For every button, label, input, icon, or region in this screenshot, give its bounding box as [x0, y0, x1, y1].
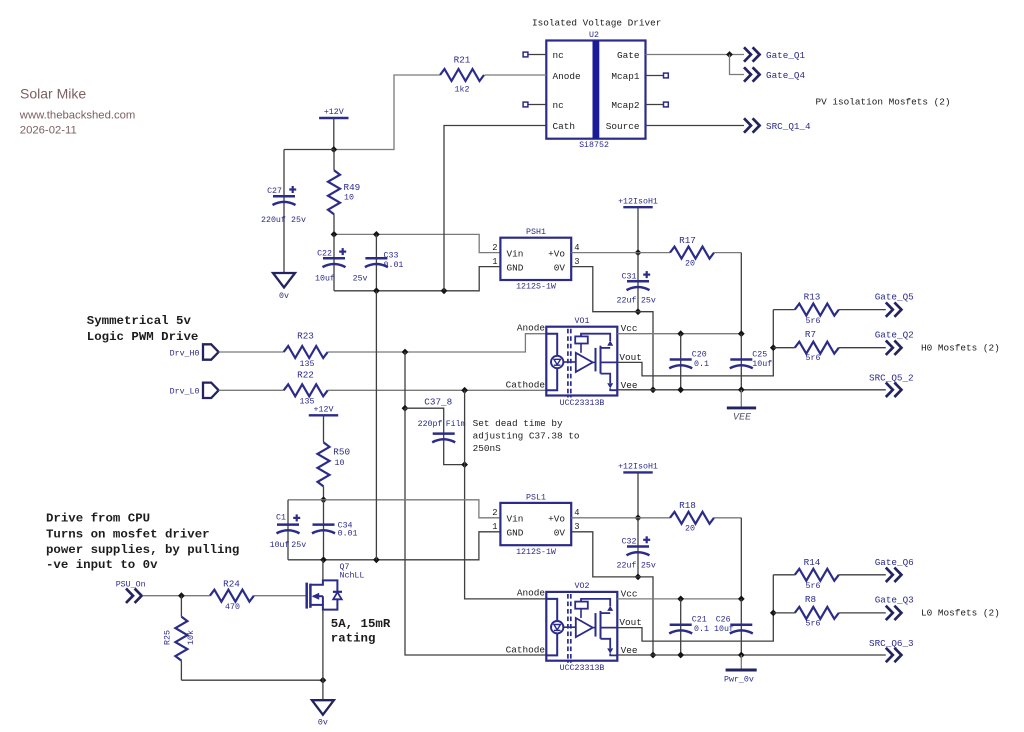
- opto-driver VO1 box: [546, 327, 617, 396]
- svg-text:Mcap1: Mcap1: [611, 71, 640, 82]
- IC U2 Si8752 box: [546, 41, 645, 139]
- resistor R50: [318, 442, 330, 486]
- svg-text:22uf: 22uf: [617, 296, 637, 306]
- wire R21 to U2 Anode: [485, 74, 547, 76]
- svg-text:C31: C31: [622, 273, 637, 282]
- svg-text:C25: C25: [752, 350, 767, 359]
- capacitor C32: [637, 518, 639, 577]
- svg-text:C21: C21: [692, 616, 707, 625]
- connector Drv_H0 input port: [203, 344, 219, 359]
- wire R25 bottom stem: [180, 661, 182, 681]
- power VEE: [740, 390, 742, 408]
- resistor R25: [175, 617, 187, 661]
- wire VO1 Vcc line: [617, 333, 741, 335]
- svg-text:0.1: 0.1: [694, 625, 709, 634]
- wire +12IsoH1 stem: [637, 472, 639, 517]
- wire Drv_L0 to R22: [219, 389, 284, 391]
- svg-text:L0 Mosfets (2): L0 Mosfets (2): [921, 608, 1000, 619]
- svg-text:R13: R13: [804, 292, 821, 303]
- connector SRC_Q5_2: [886, 383, 893, 397]
- wire R23 to VO1 Anode: [328, 334, 547, 352]
- svg-text:Vout: Vout: [619, 617, 642, 628]
- svg-text:Vin: Vin: [507, 514, 524, 525]
- wire +12V switched rail to PSL1 Vin pin 2: [288, 500, 500, 518]
- svg-text:Anode: Anode: [553, 71, 582, 82]
- svg-text:1212S-1W: 1212S-1W: [516, 548, 556, 557]
- capacitor C26: [740, 599, 742, 655]
- svg-text:Cath: Cath: [553, 121, 576, 132]
- wire PSL1 +Vo to R18: [571, 517, 670, 519]
- svg-text:Source: Source: [606, 121, 640, 132]
- wire R25 top stem: [180, 596, 182, 617]
- capacitor C37_8: [433, 432, 455, 435]
- junction C33 top: [373, 231, 380, 238]
- svg-text:C26: C26: [716, 616, 731, 625]
- wire PSH1 +Vo to R17: [571, 252, 670, 254]
- svg-text:-ve input to 0v: -ve input to 0v: [46, 558, 158, 572]
- opto-driver VO2 box: [546, 592, 617, 661]
- wire R17 to Vcc: [714, 252, 741, 254]
- wire Drv_H0 drop to C37: [404, 352, 406, 408]
- wire VO2 Vee rail: [617, 654, 886, 656]
- svg-text:1: 1: [492, 522, 497, 532]
- junction Vout branch: [770, 344, 777, 351]
- svg-text:PSH1: PSH1: [526, 228, 546, 237]
- capacitor C21: [680, 599, 682, 655]
- transistor Q7 body stub arrow: [313, 595, 323, 597]
- wire Q7 source to ground: [322, 610, 324, 701]
- wire U2 Source output: [646, 125, 745, 127]
- svg-text:R50: R50: [333, 446, 350, 457]
- junction R50 bottom: [320, 496, 327, 503]
- wire Drv_L0 net to VO2 Anode: [465, 465, 547, 599]
- svg-text:R25: R25: [164, 630, 173, 645]
- svg-text:C33: C33: [384, 251, 399, 260]
- junction Vee Cd2: [738, 386, 745, 393]
- wire PSU_On to R24: [143, 595, 210, 597]
- svg-text:20: 20: [685, 259, 695, 268]
- VO1 isolation barrier dashes: [567, 329, 569, 398]
- VO2 isolation barrier dashes: [567, 594, 569, 663]
- wire switched 0v rail to PSL1 GND pin 1: [288, 532, 500, 560]
- svg-text:220uf: 220uf: [261, 215, 286, 225]
- U2 Mcap1 stub: [646, 75, 664, 77]
- svg-text:0V: 0V: [554, 262, 566, 273]
- wire R25 to Q7 source: [181, 679, 323, 681]
- junction C37 top node: [402, 405, 409, 412]
- ground 0v (main): [312, 700, 334, 715]
- junction Vcc Cd1: [677, 596, 684, 603]
- svg-text:GND: GND: [507, 262, 524, 273]
- wire +12IsoH1 stem: [637, 207, 639, 252]
- module PSH1 DC-DC box: [500, 238, 571, 280]
- svg-text:SRC_Q1_4: SRC_Q1_4: [766, 121, 811, 132]
- wire R49 top stem: [333, 150, 335, 171]
- resistor R14: [795, 569, 839, 581]
- wire +12V rail to PSH1 Vin pin 2: [334, 234, 500, 252]
- junction R25 top: [178, 592, 185, 599]
- connector Gate_Q3: [886, 606, 893, 620]
- svg-text:Drv_L0: Drv_L0: [170, 388, 200, 397]
- svg-text:C1: C1: [276, 514, 286, 523]
- svg-text:Gate_Q2: Gate_Q2: [875, 330, 914, 341]
- svg-text:R14: R14: [804, 557, 821, 568]
- junction C33 bottom: [373, 287, 380, 294]
- svg-text:4: 4: [574, 243, 579, 253]
- connector Gate_Q1: [744, 47, 751, 61]
- junction Drv_L0 node: [461, 387, 468, 394]
- svg-text:25v: 25v: [641, 562, 656, 571]
- svg-text:+Vo: +Vo: [548, 514, 565, 525]
- svg-text:0v: 0v: [279, 292, 289, 301]
- svg-text:3: 3: [574, 522, 579, 532]
- wire PSH GND to PSL GND link: [375, 291, 377, 560]
- capacitor C25: [740, 334, 742, 390]
- svg-text:R8: R8: [805, 594, 816, 605]
- wire VO2 Vout to gate resistors: [617, 575, 773, 641]
- svg-text:C37_8: C37_8: [424, 396, 452, 407]
- junction +12V node: [330, 146, 337, 153]
- svg-text:0.1: 0.1: [694, 360, 709, 369]
- svg-text:Si8752: Si8752: [579, 140, 609, 150]
- svg-text:5r6: 5r6: [806, 582, 821, 591]
- svg-text:Mcap2: Mcap2: [611, 100, 639, 111]
- wire R18 to Vcc: [714, 517, 741, 519]
- svg-text:0V: 0V: [554, 528, 566, 539]
- transistor Q7 body diode: [333, 591, 342, 593]
- svg-text:Anode: Anode: [517, 322, 546, 333]
- svg-text:3: 3: [574, 257, 579, 267]
- wire R24 to Q7 gate: [254, 595, 306, 597]
- transistor Q7 channel bar: [309, 584, 312, 608]
- resistor R24: [210, 590, 254, 602]
- svg-text:20: 20: [685, 525, 695, 534]
- wire R22 to VO1 Cathode: [328, 389, 547, 391]
- junction Vee Cd1: [677, 386, 684, 393]
- junction Vee Cd1: [677, 652, 684, 659]
- wire R50 bottom stem: [323, 486, 325, 499]
- connector Drv_L0 input port: [203, 383, 219, 398]
- wire +12V junction to R21: [334, 75, 440, 150]
- resistor R13: [795, 304, 839, 316]
- svg-text:10uf: 10uf: [315, 274, 335, 284]
- svg-text:R49: R49: [344, 182, 361, 193]
- resistor R49: [328, 170, 340, 214]
- svg-text:+12IsoH1: +12IsoH1: [618, 197, 658, 206]
- junction R49 C22: [331, 231, 338, 238]
- resistor R22: [284, 384, 328, 396]
- svg-text:power supplies, by pulling: power supplies, by pulling: [46, 543, 239, 557]
- wire R49 bottom stem: [333, 214, 335, 234]
- svg-text:5A, 15mR: 5A, 15mR: [331, 617, 391, 631]
- power +12IsoH1: [623, 206, 652, 208]
- transistor Q7 drain stub: [310, 580, 337, 591]
- VO2 LED input path: [546, 599, 557, 621]
- capacitor C33: [375, 234, 377, 290]
- svg-text:2026-02-11: 2026-02-11: [20, 125, 77, 137]
- svg-text:SRC_Q6_3: SRC_Q6_3: [869, 638, 914, 649]
- svg-text:5r6: 5r6: [806, 354, 821, 363]
- svg-text:0v: 0v: [318, 719, 328, 728]
- svg-text:1: 1: [492, 257, 497, 267]
- svg-text:Gate_Q4: Gate_Q4: [766, 70, 805, 81]
- ground 0v (C27): [273, 273, 295, 288]
- VO2 output mosfet bars: [595, 613, 597, 637]
- svg-text:www.thebackshed.com: www.thebackshed.com: [19, 109, 136, 121]
- svg-text:10uf: 10uf: [752, 359, 772, 369]
- junction Vcc Cd1: [677, 330, 684, 337]
- wire C27 top stem: [283, 150, 285, 273]
- U2 Mcap2 stub: [646, 104, 664, 106]
- svg-text:10uf: 10uf: [270, 540, 290, 550]
- svg-text:R17: R17: [679, 235, 696, 246]
- svg-text:Drv_H0: Drv_H0: [170, 349, 200, 358]
- connector Gate_Q6: [886, 568, 893, 582]
- svg-text:C27: C27: [267, 187, 282, 196]
- VO1 internal logic box: [575, 336, 588, 343]
- svg-text:0.01: 0.01: [384, 261, 404, 270]
- svg-text:250nS: 250nS: [473, 443, 502, 454]
- svg-text:135: 135: [300, 398, 315, 407]
- junction Q7 source node: [320, 677, 327, 684]
- svg-text:4: 4: [574, 508, 579, 518]
- resistor R8: [795, 607, 839, 619]
- wire PSH1 0V return to Vee: [571, 267, 653, 390]
- wire VO1 Vee rail: [617, 389, 886, 391]
- VO2 internal buffer triangle: [576, 618, 593, 637]
- power Pwr_0v: [740, 655, 742, 670]
- svg-text:Logic PWM Drive: Logic PWM Drive: [87, 330, 199, 344]
- svg-text:Pwr_0v: Pwr_0v: [724, 676, 754, 685]
- VO1 internal buffer triangle: [576, 353, 593, 372]
- connector Gate_Q5: [886, 302, 893, 316]
- junction Gate branch: [726, 51, 733, 58]
- svg-text:C32: C32: [622, 538, 637, 547]
- svg-text:470: 470: [225, 603, 240, 612]
- svg-text:Gate_Q6: Gate_Q6: [875, 557, 914, 568]
- connector SRC_Q6_3: [886, 648, 893, 662]
- junction PSL1 +Vo node: [635, 514, 642, 521]
- capacitor C27: [273, 195, 295, 198]
- svg-text:R24: R24: [223, 579, 240, 590]
- power +12IsoH1: [623, 471, 652, 473]
- U2 isolation barrier bar: [593, 41, 600, 139]
- capacitor C34: [323, 500, 325, 560]
- svg-text:Solar Mike: Solar Mike: [20, 86, 86, 102]
- svg-text:Gate_Q5: Gate_Q5: [875, 292, 914, 303]
- svg-text:Gate_Q3: Gate_Q3: [875, 595, 914, 606]
- svg-text:25v: 25v: [291, 541, 306, 550]
- wire GND rail to PSH1 GND pin 1: [334, 267, 500, 291]
- VO2 internal logic box: [575, 602, 588, 609]
- svg-text:R18: R18: [679, 500, 696, 511]
- svg-text:R7: R7: [805, 329, 816, 340]
- junction C37 bottom node: [461, 461, 468, 468]
- svg-text:25v: 25v: [291, 216, 306, 225]
- svg-text:135: 135: [300, 360, 315, 369]
- svg-text:25v: 25v: [353, 275, 368, 284]
- wire Q7 drain: [322, 560, 324, 581]
- wire C37 top link: [405, 408, 465, 464]
- svg-text:1k2: 1k2: [455, 85, 470, 95]
- svg-text:H0 Mosfets (2): H0 Mosfets (2): [921, 342, 1000, 353]
- svg-text:Drive from CPU: Drive from CPU: [46, 512, 150, 526]
- svg-text:Cathode: Cathode: [506, 645, 546, 656]
- svg-text:R22: R22: [297, 369, 314, 380]
- junction Vout branch: [770, 610, 777, 617]
- svg-text:VO2: VO2: [575, 582, 590, 591]
- connector SRC_Q1_4: [744, 118, 751, 132]
- wire U2 Gate output: [646, 54, 745, 56]
- power +12V (top): [319, 117, 348, 119]
- wire +12V stem: [333, 118, 335, 150]
- svg-text:VO1: VO1: [575, 317, 590, 326]
- wire PSL1 0V return to Vee: [571, 532, 653, 655]
- svg-text:Vout: Vout: [619, 352, 642, 363]
- svg-text:SRC_Q5_2: SRC_Q5_2: [869, 373, 914, 384]
- svg-text:nc: nc: [553, 50, 564, 61]
- resistor R23: [284, 346, 328, 358]
- transistor Q7 gate bar: [305, 583, 308, 609]
- junction Vcc Cd2: [738, 330, 745, 337]
- svg-text:Set dead time by: Set dead time by: [473, 418, 563, 429]
- resistor R21: [440, 69, 484, 81]
- svg-text:5r6: 5r6: [806, 317, 821, 326]
- wire junction to C27: [284, 149, 334, 151]
- svg-text:PSL1: PSL1: [526, 493, 546, 502]
- junction C32 bottom: [635, 574, 642, 581]
- svg-text:UCC23313B: UCC23313B: [560, 399, 605, 408]
- junction C31 bottom: [635, 308, 642, 315]
- svg-text:U2: U2: [589, 31, 599, 40]
- wire Drv_L0 to C37 bottom: [464, 390, 466, 464]
- junction 0v rail link: [373, 556, 380, 563]
- connector Gate_Q2: [886, 341, 893, 355]
- module PSL1 DC-DC box: [500, 503, 571, 545]
- svg-text:C22: C22: [317, 249, 332, 258]
- svg-text:R23: R23: [297, 331, 314, 342]
- wire Drv_H0 to R23: [219, 351, 284, 353]
- svg-text:5r6: 5r6: [806, 619, 821, 628]
- svg-text:2: 2: [492, 508, 497, 518]
- wire U2 Cath: [444, 126, 546, 291]
- VO1 internal vcc rail: [581, 334, 610, 341]
- capacitor C22: [333, 234, 335, 290]
- svg-text:Film: Film: [446, 419, 466, 429]
- wire Drv_H0 net to VO2 Cathode: [405, 408, 546, 655]
- VO1 output mosfet stubs: [601, 347, 611, 349]
- svg-text:+Vo: +Vo: [548, 248, 565, 259]
- svg-text:Cathode: Cathode: [506, 379, 546, 390]
- svg-text:adjusting C37.38 to: adjusting C37.38 to: [473, 431, 580, 442]
- junction 0V Vee node: [650, 652, 657, 659]
- svg-text:R21: R21: [454, 55, 471, 66]
- junction Vcc Cd2: [738, 596, 745, 603]
- junction Vee Cd2: [738, 652, 745, 659]
- capacitor C1: [287, 500, 289, 560]
- power +12V (lower): [309, 414, 338, 416]
- VO1 LED circle: [551, 356, 563, 368]
- junction C34 bottom / Q7 drain: [320, 556, 327, 563]
- junction Cath GND rail: [441, 287, 448, 294]
- svg-text:10k: 10k: [186, 630, 196, 645]
- svg-text:Vcc: Vcc: [621, 588, 638, 599]
- svg-text:GND: GND: [507, 528, 524, 539]
- wire VO2 Vcc line: [617, 598, 741, 600]
- svg-text:NchLL: NchLL: [340, 571, 365, 581]
- wire Gate_Q4 branch: [730, 55, 745, 75]
- svg-text:25v: 25v: [641, 297, 656, 306]
- svg-text:PV isolation Mosfets (2): PV isolation Mosfets (2): [816, 96, 951, 107]
- capacitor C31: [637, 253, 639, 312]
- U2 nc stub top: [528, 54, 546, 56]
- svg-text:10: 10: [335, 459, 345, 468]
- svg-text:1212S-1W: 1212S-1W: [516, 283, 556, 292]
- svg-text:Gate_Q1: Gate_Q1: [766, 50, 805, 61]
- resistor R17: [670, 247, 714, 259]
- wire +12V lower stem: [323, 415, 325, 442]
- svg-text:+12IsoH1: +12IsoH1: [618, 463, 658, 472]
- VO1 LED input path: [546, 334, 557, 356]
- VO2 internal vcc rail: [581, 599, 610, 606]
- svg-text:Gate: Gate: [617, 50, 640, 61]
- svg-text:+12V: +12V: [314, 406, 334, 415]
- svg-text:rating: rating: [331, 631, 376, 645]
- svg-text:Isolated Voltage Driver: Isolated Voltage Driver: [532, 17, 661, 28]
- svg-text:10: 10: [344, 194, 354, 203]
- connector Gate_Q4: [744, 67, 751, 81]
- junction PSH1 +Vo node: [635, 249, 642, 256]
- svg-text:Anode: Anode: [517, 588, 546, 599]
- VO2 output mosfet stubs: [601, 612, 611, 614]
- svg-text:+12V: +12V: [324, 108, 344, 117]
- svg-text:nc: nc: [553, 100, 564, 111]
- connector PSU_On: [126, 589, 133, 603]
- junction Drv_H0 node: [402, 349, 409, 356]
- svg-text:22uf: 22uf: [617, 561, 637, 571]
- svg-text:UCC23313B: UCC23313B: [560, 664, 605, 673]
- svg-text:C20: C20: [692, 350, 707, 359]
- svg-text:0.01: 0.01: [338, 530, 358, 539]
- U2 nc stub bottom: [528, 104, 546, 106]
- svg-text:Vin: Vin: [507, 248, 524, 259]
- svg-text:PSU_On: PSU_On: [116, 581, 146, 590]
- VO1 output mosfet bars: [595, 348, 597, 372]
- junction 0V Vee node: [650, 386, 657, 393]
- svg-text:10uf: 10uf: [714, 624, 734, 634]
- svg-text:Vcc: Vcc: [621, 323, 638, 334]
- svg-text:VEE: VEE: [733, 413, 752, 424]
- transistor Q7 source stub: [310, 600, 337, 610]
- wire VO1 Vout to gate resistors: [617, 310, 773, 376]
- svg-text:Symmetrical 5v: Symmetrical 5v: [87, 314, 192, 328]
- resistor R18: [670, 512, 714, 524]
- VO2 LED circle: [551, 621, 563, 633]
- capacitor C20: [680, 334, 682, 390]
- svg-text:2: 2: [492, 243, 497, 253]
- svg-text:220pf: 220pf: [418, 419, 443, 429]
- svg-text:Turns on mosfet driver: Turns on mosfet driver: [46, 528, 210, 542]
- resistor R7: [795, 342, 839, 354]
